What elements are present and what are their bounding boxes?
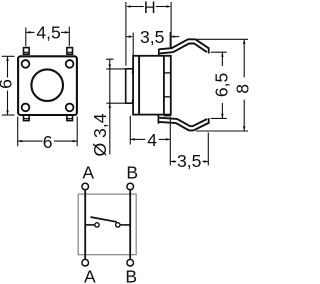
svg-text:3,5: 3,5 bbox=[177, 151, 202, 171]
corner rivet circle top-right bbox=[66, 60, 74, 68]
bracket rivet tick lower bbox=[164, 96, 171, 98]
svg-text:A: A bbox=[82, 162, 94, 182]
side view body bbox=[133, 56, 171, 115]
terminal circle B bottom bbox=[127, 259, 134, 266]
contact wire right bbox=[120, 224, 130, 226]
bottom-right lead tab crimp line bbox=[67, 118, 73, 120]
svg-text:6: 6 bbox=[43, 132, 53, 152]
bottom-left lead tab bbox=[24, 115, 30, 121]
svg-text:8: 8 bbox=[232, 84, 250, 94]
svg-text:B: B bbox=[125, 267, 137, 284]
dimension 8 (overall height, far right) bbox=[196, 39, 248, 131]
dimension 6,5 (clip span, right) bbox=[211, 52, 227, 118]
switch body top view bbox=[18, 56, 77, 115]
button (plunger) bbox=[126, 69, 133, 103]
bracket rivet tick upper bbox=[164, 72, 171, 74]
dimension 3,5 (top, body depth) bbox=[127, 32, 180, 56]
svg-text:6,5: 6,5 bbox=[211, 72, 231, 97]
svg-text:6: 6 bbox=[0, 79, 15, 89]
bottom-left lead tab crimp line bbox=[24, 118, 30, 120]
dimension 6 (bottom) bbox=[18, 117, 77, 147]
top-left lead tab bbox=[24, 48, 30, 55]
wire B vertical bbox=[129, 190, 131, 258]
switch actuator bar bbox=[90, 217, 116, 222]
dimension 3,5 (bottom right, clip overhang) bbox=[170, 133, 208, 166]
corner rivet circle top-left bbox=[22, 60, 30, 68]
corner rivet circle bottom-left bbox=[22, 104, 30, 112]
top-right lead tab bbox=[67, 48, 73, 55]
front flange divider bbox=[138, 56, 140, 115]
top-right lead tab crimp line bbox=[67, 51, 73, 53]
svg-text:H: H bbox=[144, 0, 156, 17]
dimension 6 (left side) bbox=[2, 56, 15, 115]
svg-text:4,5: 4,5 bbox=[36, 22, 61, 42]
top mounting clip bbox=[159, 41, 209, 56]
bottom mounting clip bbox=[158, 115, 208, 129]
contact circle right bbox=[116, 223, 120, 227]
bracket column left edge bbox=[163, 56, 165, 116]
svg-text:4: 4 bbox=[147, 130, 157, 150]
wire A vertical bbox=[84, 190, 86, 258]
button collar nub top bbox=[132, 71, 134, 74]
button collar nub bottom bbox=[132, 99, 134, 102]
terminal circle A top bbox=[82, 183, 89, 190]
central button circle bbox=[31, 69, 63, 101]
dimension H (top of side view) bbox=[126, 2, 171, 66]
bottom-right lead tab bbox=[67, 115, 73, 121]
dimension 4,5 (lead spacing, top) bbox=[26, 27, 70, 47]
dimension 4 (bottom of side view) bbox=[130, 116, 170, 166]
dimension Ø 3,4 (button diameter) bbox=[106, 59, 125, 154]
svg-text:A: A bbox=[84, 267, 96, 284]
contact circle left bbox=[95, 223, 99, 227]
terminal circle A bottom bbox=[82, 259, 89, 266]
schematic outline box bbox=[78, 194, 136, 255]
corner rivet circle bottom-right bbox=[66, 104, 74, 112]
contact wire left bbox=[85, 224, 94, 226]
terminal circle B top bbox=[127, 183, 134, 190]
svg-text:B: B bbox=[126, 162, 138, 182]
top-left lead tab crimp line bbox=[24, 51, 30, 53]
svg-text:3,5: 3,5 bbox=[140, 27, 165, 47]
svg-text:Ø 3,4: Ø 3,4 bbox=[90, 113, 110, 156]
